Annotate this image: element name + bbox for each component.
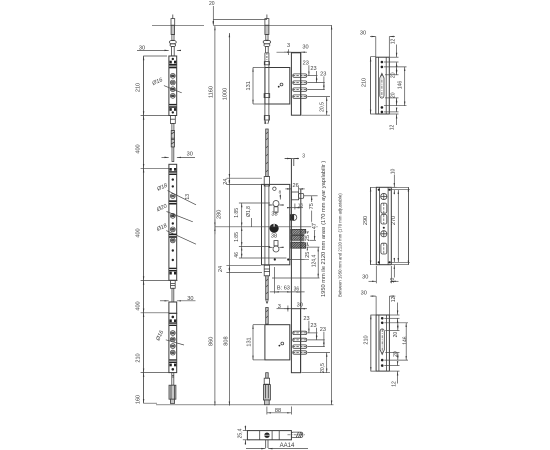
detail1 plate <box>376 57 390 114</box>
svg-text:20: 20 <box>393 332 399 338</box>
svg-text:3: 3 <box>278 304 281 310</box>
left strip segment above box3 <box>169 302 177 313</box>
detail2 right overall line <box>392 187 408 264</box>
top aux case <box>265 68 290 105</box>
bottom case pin circle <box>279 342 284 346</box>
cylinder nose on faceplate <box>290 214 297 220</box>
svg-text:25: 25 <box>305 252 311 258</box>
left rod thin segment 3 <box>172 288 174 302</box>
main case screw post top <box>268 201 283 213</box>
top case bolt 1 <box>293 74 307 77</box>
overall dim line (Between ...) <box>321 25 343 405</box>
detail2 slot 3 <box>381 243 387 254</box>
top case bolt 2 <box>293 81 307 84</box>
top case bolt 3 <box>293 88 307 91</box>
svg-text:160: 160 <box>135 395 141 404</box>
main case dots <box>274 258 290 260</box>
left lock box 2 <box>169 164 177 280</box>
detail2 dim 270 <box>391 190 398 263</box>
svg-text:1:85: 1:85 <box>234 232 240 242</box>
box2 screw squares top <box>170 168 177 171</box>
svg-text:30: 30 <box>360 31 366 37</box>
detail2 corner dots <box>378 189 391 264</box>
detail1 dim 20 bottom <box>391 92 397 105</box>
svg-text:Ø18: Ø18 <box>155 182 169 193</box>
section cut line + label AA14 <box>246 440 308 449</box>
detail1 dim 146 <box>397 67 404 106</box>
main faceplate (edge) <box>291 159 300 309</box>
detail3 screw dots <box>381 317 384 367</box>
left lock box 3 <box>169 313 177 372</box>
box2 hatch band mid2 <box>169 234 176 238</box>
box1 screw squares top <box>170 61 177 64</box>
svg-text:270: 270 <box>391 216 397 225</box>
left rod bottom shaft <box>169 385 176 399</box>
svg-text:1950 mm ile 2120 mm arası (170: 1950 mm ile 2120 mm arası (170 mm ayar y… <box>321 161 327 297</box>
chain labels <box>135 83 141 404</box>
svg-text:3: 3 <box>302 154 305 160</box>
svg-text:B: 63: B: 63 <box>277 285 290 291</box>
svg-text:AA14: AA14 <box>280 443 295 449</box>
dim line 1000 / 24 / 24 / 808 <box>218 33 262 406</box>
chain arrow spans <box>143 56 145 403</box>
rod bar through main case <box>265 184 269 264</box>
box1 dot top <box>172 58 174 60</box>
detail2 small dot <box>383 227 385 229</box>
dim 47 <box>307 222 318 241</box>
svg-text:38: 38 <box>271 233 277 239</box>
label dia16 box1 <box>151 77 182 93</box>
rod taper tip + break <box>265 120 269 124</box>
dim 30 detail3 <box>361 291 396 316</box>
dim 75 <box>304 196 318 227</box>
svg-text:Between 1950 mm and 2120 mm (1: Between 1950 mm and 2120 mm (170 mm adju… <box>338 193 343 297</box>
detail2 slot 1 <box>381 203 387 213</box>
detail3 plate <box>376 315 389 371</box>
box1 dot bottom <box>172 111 174 113</box>
svg-text:860: 860 <box>208 337 214 346</box>
svg-text:400: 400 <box>135 301 141 310</box>
svg-text:12: 12 <box>391 381 397 387</box>
dim 25 lower <box>290 247 320 259</box>
detail2 plate <box>376 187 391 264</box>
svg-text:38: 38 <box>271 212 277 218</box>
rod below bottom case <box>263 373 270 405</box>
svg-text:26: 26 <box>292 183 298 189</box>
box3 hatch band top <box>169 322 176 326</box>
dim 20 top <box>209 1 215 26</box>
svg-text:210: 210 <box>135 353 141 362</box>
detail3 dim 146 <box>402 323 408 360</box>
detail1 dim 20 top <box>391 67 397 78</box>
section follower (black) <box>264 433 269 438</box>
detail3 centre slot <box>380 329 384 354</box>
bottom aux faceplate (edge) <box>291 309 300 373</box>
dim 30 top of left strip <box>137 45 181 51</box>
cylinder axis leader <box>215 226 318 228</box>
bottom ground reference line <box>156 404 334 406</box>
detail1 screw dots <box>381 61 384 113</box>
label dia20 <box>155 203 193 222</box>
svg-text:30: 30 <box>362 275 368 281</box>
deadbolt hatched blocks <box>286 229 311 248</box>
svg-text:36: 36 <box>294 286 300 292</box>
rod coupling below top case <box>264 116 269 121</box>
main lock case <box>262 184 290 264</box>
rod coupling at main case top <box>264 177 269 187</box>
svg-text:24: 24 <box>218 266 224 272</box>
svg-text:12: 12 <box>390 125 396 131</box>
left lock box 1 <box>169 56 177 116</box>
box2 hatch band mid1 <box>169 200 176 204</box>
bottom case bolt 2 <box>293 338 307 341</box>
box2 dots lower <box>172 249 174 251</box>
svg-text:1160: 1160 <box>208 86 214 98</box>
svg-text:20: 20 <box>391 92 397 98</box>
left rod thin segment <box>172 124 174 131</box>
label dia16 box3 <box>155 329 184 345</box>
svg-text:30: 30 <box>302 45 308 51</box>
box1 hatch band top <box>169 64 176 68</box>
svg-text:12: 12 <box>391 297 397 303</box>
box3 screw squares top <box>170 319 177 322</box>
box2 screw squares bottom <box>170 272 177 275</box>
svg-text:25,4: 25,4 <box>238 428 244 438</box>
detail3 dim 20 top <box>393 323 399 338</box>
dim 131 top case <box>246 68 264 105</box>
svg-text:46: 46 <box>234 252 240 258</box>
svg-text:Ø16: Ø16 <box>155 329 166 343</box>
middle rod top tip <box>265 15 269 26</box>
dim 25,4 <box>238 426 250 445</box>
svg-text:20,5: 20,5 <box>320 363 326 373</box>
main case left dim column 1:85 / 1:85 / 46 <box>234 203 287 258</box>
dim 3 main faceplate top <box>285 154 306 160</box>
top faceplate edge over bolts <box>300 53 302 115</box>
svg-text:Ø18: Ø18 <box>155 223 169 234</box>
rod resumes to main case <box>266 129 269 177</box>
svg-text:146: 146 <box>397 81 403 90</box>
dims 23x3 top case <box>303 60 330 96</box>
rod coupling box upper <box>264 62 269 65</box>
label dia18 cylinder <box>246 206 252 227</box>
svg-text:Ø16: Ø16 <box>151 77 165 88</box>
dim B:63 / 36 <box>270 267 305 294</box>
detail1 centre slot <box>380 73 384 98</box>
main case small circle + dim 8 <box>273 187 282 200</box>
dims 23x3 bottom case <box>303 316 330 353</box>
middle rod upper shaft <box>265 25 269 40</box>
left rod bottom tip <box>170 399 174 403</box>
box2 circle 1 <box>170 194 175 199</box>
detail2 screw circle bottom <box>381 231 387 237</box>
svg-text:280: 280 <box>217 210 223 219</box>
dim 20,5 bottom case <box>302 353 331 373</box>
box3 hole circles <box>170 331 175 355</box>
svg-text:13: 13 <box>185 194 191 200</box>
dim 30 detail1 <box>360 31 395 58</box>
svg-text:24: 24 <box>223 179 229 185</box>
dim 3 and 30 top faceplate <box>277 43 309 55</box>
svg-text:400: 400 <box>135 228 141 237</box>
box1 screw squares bottom <box>170 108 177 111</box>
detail1 dim 12 top <box>391 39 397 67</box>
svg-text:808: 808 <box>223 336 229 345</box>
box2 dots <box>172 178 174 180</box>
svg-text:47: 47 <box>312 223 318 229</box>
chain extension ticks <box>141 116 178 373</box>
top case pin circle <box>278 83 283 88</box>
box2 hatch band bottom <box>169 268 176 272</box>
detail2 dim 290 <box>363 187 376 264</box>
top reference line right segment <box>213 24 331 26</box>
detail3 dim 210 <box>363 315 375 371</box>
chain line <box>144 56 167 403</box>
dim 25 upper <box>304 232 311 245</box>
detail1 dim 210 <box>361 57 375 114</box>
svg-text:400: 400 <box>135 144 141 153</box>
detail2 dim 10 top <box>391 169 410 195</box>
svg-text:8: 8 <box>279 190 282 195</box>
middle drive rod bar upper <box>265 53 269 124</box>
label dia18 lower <box>155 223 196 244</box>
detail2 dim 10 bottom <box>390 258 410 283</box>
detail2 slot 2 <box>381 214 387 224</box>
dim 131 bottom case <box>247 325 265 360</box>
cylinder (black) <box>270 224 279 233</box>
detail3 dim 20 bottom <box>393 351 399 360</box>
svg-text:10: 10 <box>391 169 397 175</box>
detail3 dim 12 top <box>391 297 397 323</box>
top aux faceplate (edge) <box>291 53 300 115</box>
middle rod roller <box>263 40 271 53</box>
dim 88 bottom <box>267 407 292 415</box>
svg-text:Ø1,8: Ø1,8 <box>246 206 252 217</box>
left rod top tip <box>171 15 175 26</box>
left rod clevis below box1 <box>170 116 175 124</box>
dim 30 above box2 <box>162 151 196 157</box>
svg-text:30: 30 <box>187 151 193 157</box>
svg-text:210: 210 <box>363 335 369 344</box>
top reference line left segment <box>152 24 204 26</box>
svg-text:Ø20: Ø20 <box>155 203 169 214</box>
dim 124,4 <box>272 247 320 278</box>
box1 hatch band bottom <box>169 104 176 108</box>
box2 dot mid <box>172 222 174 224</box>
svg-text:210: 210 <box>361 78 367 87</box>
svg-text:10: 10 <box>390 278 396 284</box>
svg-text:290: 290 <box>363 216 369 225</box>
section bar <box>247 431 291 440</box>
svg-text:23: 23 <box>310 323 316 329</box>
svg-text:131: 131 <box>246 81 252 90</box>
svg-text:75: 75 <box>309 203 315 209</box>
dim line 1160 <box>208 26 222 406</box>
svg-text:1:85: 1:85 <box>234 208 240 218</box>
section latch stub <box>288 432 306 437</box>
left rod adjuster <box>171 131 174 147</box>
detail3 right extensions <box>384 315 408 371</box>
left rod clevis below box2 <box>171 280 176 288</box>
box3 dot bottom <box>172 368 175 371</box>
detail2 screw circle top <box>381 193 387 199</box>
svg-text:20: 20 <box>391 72 397 78</box>
box1 hole circles <box>170 73 175 98</box>
box2 circle 4 <box>170 238 175 243</box>
rod between main and bottom case <box>266 276 269 324</box>
svg-text:124,4: 124,4 <box>311 255 317 268</box>
bottom case bolt 4 <box>293 351 307 354</box>
svg-text:3: 3 <box>287 43 290 49</box>
svg-text:13: 13 <box>298 202 304 207</box>
box3 screw squares bottom <box>170 364 177 367</box>
left rod roller <box>169 40 176 56</box>
svg-text:12: 12 <box>391 39 397 45</box>
svg-text:23: 23 <box>320 72 326 78</box>
box2 circle 3 <box>170 227 175 232</box>
svg-text:30: 30 <box>361 291 367 297</box>
svg-text:131: 131 <box>247 337 253 346</box>
rod clevis in top case <box>264 94 270 98</box>
bottom aux case <box>265 325 290 360</box>
main case screw post bottom <box>268 241 283 252</box>
svg-text:20: 20 <box>209 1 215 7</box>
box3 dot top <box>172 316 175 319</box>
detail1 right extensions <box>384 57 407 114</box>
box3 hatch band bottom <box>169 359 176 363</box>
dim 3 and 30 bottom faceplate <box>277 302 308 311</box>
svg-text:1000: 1000 <box>223 88 229 100</box>
dim 13 latch throw <box>289 202 304 209</box>
label dia18 upper <box>155 182 196 204</box>
left rod upper shaft <box>171 25 175 40</box>
dim 30 above box3 <box>160 296 196 302</box>
dim 26 latch <box>285 183 304 192</box>
rod coupling below main case <box>264 265 269 276</box>
left rod below box3 <box>172 373 174 386</box>
svg-text:30: 30 <box>187 296 193 302</box>
detail2 dim 30 bottom <box>362 266 398 283</box>
bottom faceplate edge over bolts <box>300 309 302 373</box>
left rod thin segment 2 <box>172 147 174 162</box>
dim 20,5 top case <box>302 97 331 116</box>
svg-text:23: 23 <box>303 60 309 66</box>
svg-text:25: 25 <box>305 235 311 241</box>
svg-text:20,5: 20,5 <box>320 102 326 112</box>
svg-text:146: 146 <box>402 336 408 345</box>
detail1 dim 12 bottom <box>390 108 397 131</box>
bottom case bolt 3 <box>293 345 307 348</box>
bottom case bolt 1 <box>293 331 307 334</box>
latch bolt <box>291 192 303 200</box>
svg-text:23: 23 <box>320 327 326 333</box>
box2 circle 2 <box>170 213 175 218</box>
svg-text:210: 210 <box>135 83 141 92</box>
box2 hatch band top <box>169 171 176 175</box>
svg-text:30: 30 <box>297 302 303 308</box>
upper reference line <box>213 18 267 20</box>
detail3 dim 12 bottom <box>391 364 397 387</box>
svg-text:23: 23 <box>310 66 316 72</box>
top case bolt 4 <box>293 95 307 98</box>
